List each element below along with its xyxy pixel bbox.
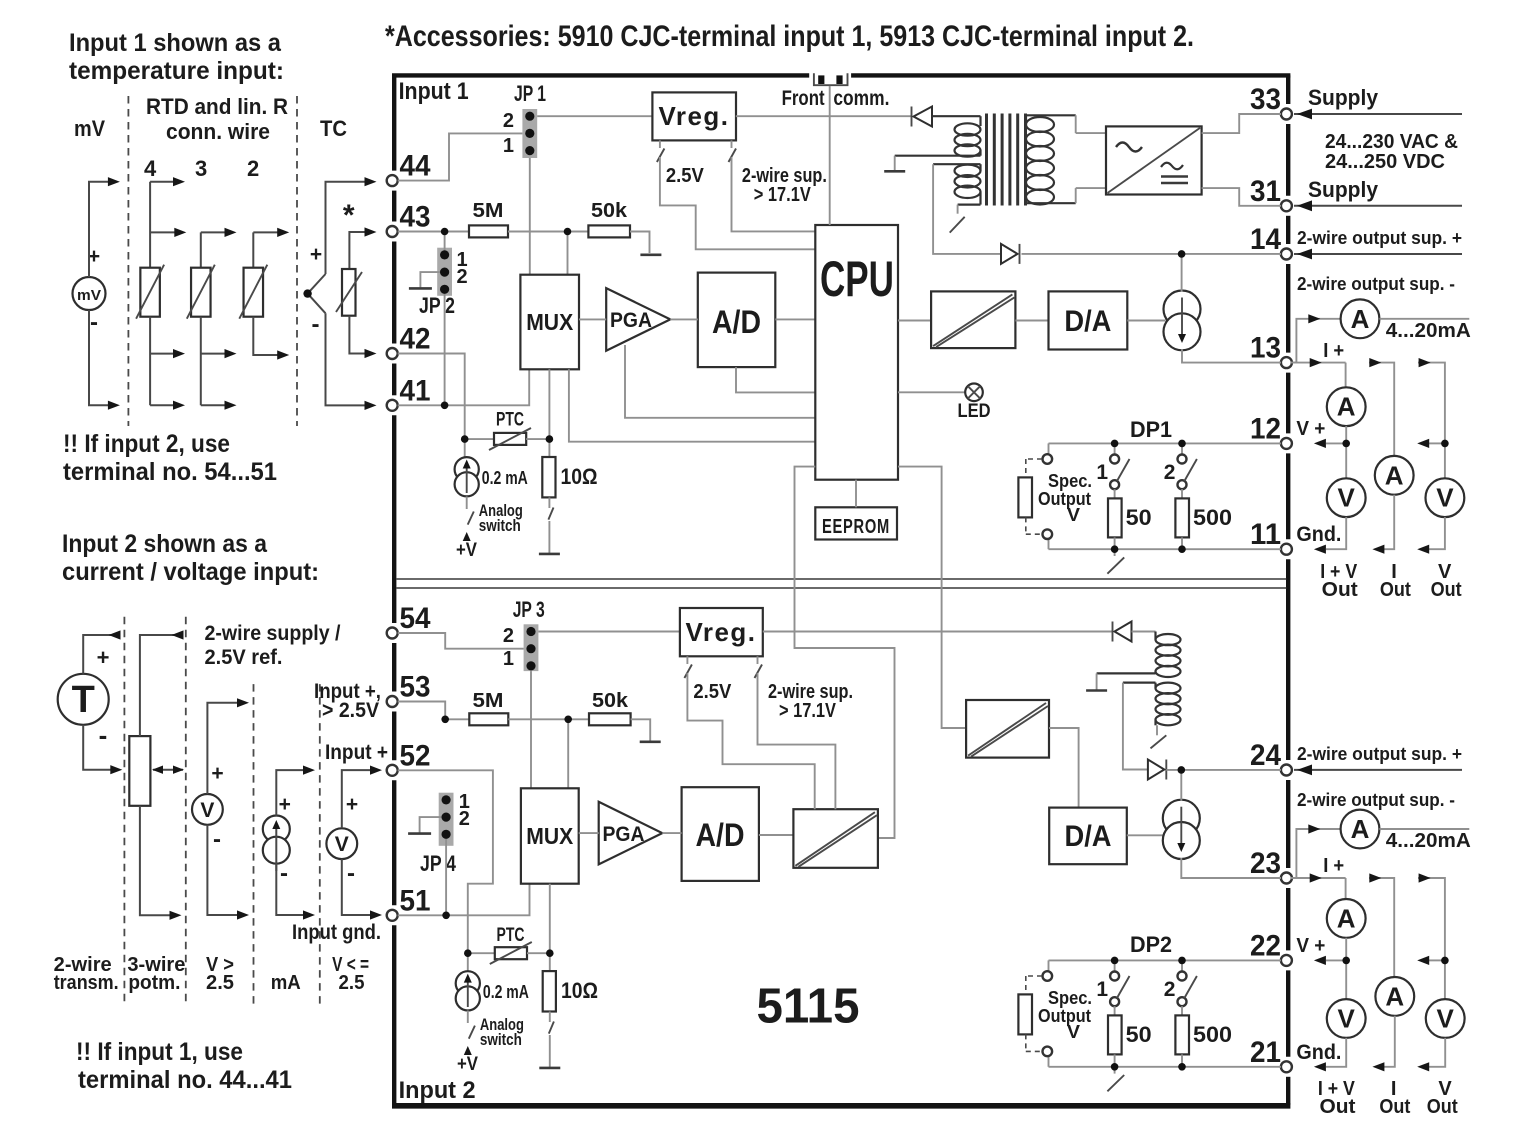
svg-text:PTC: PTC [496, 410, 524, 431]
svg-text:V: V [1437, 1004, 1455, 1034]
svg-text:5M: 5M [473, 690, 504, 712]
svg-text:JP 2: JP 2 [419, 293, 455, 318]
wire A/D to CPU [775, 318, 815, 320]
svg-text:33: 33 [1250, 83, 1281, 116]
spec output connector input 2 [1048, 960, 1050, 971]
main device enclosure border bottom [392, 1103, 1290, 1109]
svg-text:Supply: Supply [1308, 85, 1379, 110]
svg-text:DP1: DP1 [1130, 417, 1172, 442]
wire diode D4 to terminal 24 [1166, 769, 1281, 771]
transmitter T symbol [58, 674, 109, 725]
svg-text:52: 52 [400, 739, 431, 772]
svg-text:LED: LED [958, 401, 991, 422]
svg-text:5115: 5115 [757, 980, 860, 1034]
ground at JP2 [409, 287, 432, 290]
svg-text:mV: mV [77, 287, 101, 304]
branch I out input 2 [1369, 878, 1394, 977]
svg-text:+: + [279, 793, 291, 816]
svg-text:!! If input 2, use: !! If input 2, use [63, 430, 230, 458]
power transformer input 1 [932, 115, 981, 117]
svg-text:Gnd.: Gnd. [1296, 1041, 1341, 1064]
wire current source to terminal 13 [1182, 349, 1281, 362]
svg-text:2-wire output sup. -: 2-wire output sup. - [1297, 274, 1455, 294]
terminal 23 [1281, 873, 1292, 884]
wire DP2 top rail to terminal 22 [1049, 959, 1282, 961]
boundary dashed line left 1 [127, 96, 129, 426]
svg-text:> 17.1V: > 17.1V [779, 700, 837, 722]
wire JP1 bottom to MUX [529, 158, 531, 275]
rectifier AC/DC [1075, 115, 1077, 133]
svg-text:Out: Out [1379, 1096, 1410, 1118]
wire JP1 pin2 to Vreg [537, 115, 652, 117]
wire current source to terminal 23 [1181, 858, 1281, 878]
svg-text:*: * [343, 199, 355, 232]
svg-text:2.5V: 2.5V [693, 681, 732, 703]
converter D/A input 2 [1049, 808, 1127, 865]
2-wire sup line with switch to isolation input 2 [757, 656, 759, 664]
ground 10 ohm input 2 [539, 1067, 560, 1070]
wire isolation to D/A [1015, 320, 1048, 322]
svg-text:3: 3 [195, 156, 207, 181]
current source mA [263, 816, 290, 843]
svg-text:Gnd.: Gnd. [1296, 523, 1341, 546]
2.5V line with switch to isolation input 2 [686, 656, 688, 664]
voltage source V>2.5 [192, 794, 223, 825]
svg-text:*Accessories: 5910 CJC-termina: *Accessories: 5910 CJC-terminal input 1,… [385, 20, 1194, 53]
LED indicator [898, 391, 965, 393]
amplifier PGA input 2 [599, 802, 663, 865]
wire terminal 52 around to PTC node [398, 770, 493, 953]
svg-text:A: A [1385, 460, 1404, 490]
svg-text:2-wire output sup. -: 2-wire output sup. - [1297, 790, 1455, 810]
section separator lines [396, 578, 1286, 580]
mV source [73, 277, 106, 310]
wire MUX to PGA input 2 [579, 832, 599, 834]
svg-text:V: V [1067, 505, 1080, 525]
svg-text:-: - [90, 309, 98, 336]
svg-text:A: A [1351, 304, 1370, 334]
resistor RTD 2-wire [244, 268, 263, 317]
svg-text:42: 42 [400, 323, 431, 356]
svg-text:50: 50 [1126, 505, 1152, 530]
resistor 10 ohm input 2 [549, 953, 551, 971]
svg-text:Supply: Supply [1308, 177, 1379, 202]
svg-text:temperature input:: temperature input: [69, 57, 284, 85]
svg-text:Out: Out [1322, 579, 1358, 601]
svg-text:2-wire output sup. +: 2-wire output sup. + [1297, 228, 1462, 248]
svg-text:A/D: A/D [712, 304, 761, 340]
wire front comm to CPU [829, 86, 831, 225]
terminal 13 [1281, 357, 1292, 368]
svg-text:41: 41 [400, 374, 431, 407]
multiplexer MUX input 2 [521, 788, 579, 883]
svg-text:EEPROM: EEPROM [822, 516, 890, 538]
svg-text:2: 2 [459, 808, 470, 830]
svg-text:-: - [213, 826, 221, 853]
arrow to terminal 12 [1326, 442, 1346, 444]
wire terminal 51 to MUX bottom [398, 884, 530, 916]
ground at JP4 [408, 832, 431, 835]
voltmeter V branch input 2 [1426, 999, 1465, 1038]
inductor ground tap input 2 [1097, 672, 1156, 674]
converter D/A input 1 [1049, 291, 1128, 349]
svg-text:51: 51 [400, 884, 431, 917]
wire A/D bottom to CPU [736, 367, 815, 392]
wire MUX bottom to PTC node [548, 369, 550, 439]
svg-text:Input 2 shown as a: Input 2 shown as a [62, 530, 268, 558]
resistor 50 input 2 [1114, 1006, 1116, 1015]
amplifier PGA input 1 [606, 288, 670, 351]
svg-text:1: 1 [1096, 978, 1108, 1001]
svg-text:54: 54 [400, 602, 431, 635]
svg-text:conn. wire: conn. wire [166, 119, 270, 144]
diode D3 [1112, 622, 1114, 642]
svg-text:A/D: A/D [696, 817, 745, 853]
wire CPU left bus to input 2 isolation [795, 467, 895, 838]
inductor lower winding input 2 [1123, 681, 1156, 683]
switch DP1-2 [1181, 443, 1183, 454]
PTC sensor line [465, 438, 494, 440]
wire JP3 bottom to MUX input 2 [530, 671, 532, 788]
svg-text:2: 2 [457, 266, 468, 288]
wire DP1 top rail to terminal 12 [1049, 442, 1282, 444]
wire DP2 bottom rail to terminal 21 [1049, 1066, 1282, 1068]
output current source input 1 [1164, 291, 1201, 328]
terminal 14 [1281, 249, 1292, 260]
wire A/D to isolation input 2 [759, 834, 794, 836]
svg-text:+: + [211, 762, 223, 785]
wire MUX to PGA [579, 318, 606, 320]
svg-text:switch: switch [480, 1030, 522, 1049]
svg-text:current / voltage input:: current / voltage input: [62, 558, 319, 586]
wire node 53 to MUX top input 2 [567, 719, 569, 788]
svg-text:DP2: DP2 [1130, 932, 1172, 957]
svg-text:D/A: D/A [1065, 820, 1112, 853]
svg-text:31: 31 [1250, 175, 1281, 208]
svg-text:D/A: D/A [1064, 305, 1111, 338]
resistor 5M input 2 [469, 713, 508, 725]
RTD 2-wire column [252, 232, 254, 267]
svg-text:Input +: Input + [325, 741, 388, 764]
inductor upper winding input 2 [1154, 632, 1156, 640]
svg-text:Out: Out [1380, 579, 1411, 601]
wire D/A to output current source [1127, 320, 1165, 322]
svg-text:V: V [335, 833, 349, 856]
secondary winding [1026, 114, 1076, 116]
2-wire sup line with switch to CPU [731, 140, 733, 148]
svg-text:4: 4 [144, 156, 157, 181]
wire node 43 to MUX top [567, 232, 569, 275]
svg-text:A: A [1351, 814, 1370, 844]
wire PGA to A/D input 2 [662, 832, 681, 834]
svg-text:2.5V ref.: 2.5V ref. [205, 646, 283, 669]
svg-text:24...250 VDC: 24...250 VDC [1325, 151, 1445, 173]
switch DP2-2 [1181, 960, 1183, 971]
svg-text:53: 53 [400, 671, 431, 704]
terminal 52 [387, 765, 398, 776]
resistor 50 [1114, 489, 1116, 498]
svg-text:10Ω: 10Ω [561, 978, 598, 1003]
wire rectifier to terminal 33 [1202, 114, 1281, 133]
terminal 44 [387, 175, 398, 186]
svg-text:V: V [1067, 1022, 1080, 1042]
svg-text:500: 500 [1193, 1022, 1232, 1047]
RTD 3-wire column [200, 232, 202, 267]
svg-text:-: - [347, 860, 355, 887]
wire 50k to ground [630, 232, 650, 254]
resistor 10 ohm input 1 [548, 439, 550, 457]
svg-text:2.5: 2.5 [339, 972, 365, 994]
diode D1 [736, 115, 912, 117]
svg-text:JP 1: JP 1 [514, 81, 546, 106]
svg-text:14: 14 [1250, 223, 1281, 256]
svg-text:12: 12 [1250, 412, 1281, 445]
jumper JP3 [524, 624, 539, 671]
wire JP3 pin2 to Vreg input 2 [538, 631, 680, 633]
svg-text:terminal no. 54...51: terminal no. 54...51 [63, 458, 277, 486]
svg-text:Input 2: Input 2 [399, 1077, 476, 1104]
svg-text:PGA: PGA [603, 823, 645, 846]
voltmeter I+V branch input 2 [1327, 999, 1366, 1038]
svg-text:Vreg.: Vreg. [686, 617, 757, 647]
svg-text:Output: Output [1038, 489, 1091, 509]
terminal 31 [1281, 200, 1292, 211]
svg-text:22: 22 [1250, 929, 1281, 962]
terminal 41 [387, 400, 398, 411]
terminal 51 [387, 910, 398, 921]
terminal 33 [1281, 109, 1292, 120]
converter A/D input 2 [682, 787, 759, 881]
resistor 5M [469, 225, 508, 237]
memory EEPROM [815, 507, 897, 539]
multiplexer MUX input 1 [520, 275, 579, 370]
svg-text:+: + [97, 645, 110, 670]
svg-text:10Ω: 10Ω [561, 464, 598, 489]
resistor PTC input 2 [495, 947, 527, 959]
wire MUX bottom to PTC node input 2 [549, 884, 551, 954]
ground after 50k input 2 [640, 740, 661, 743]
wire junction dots [303, 289, 311, 297]
jumper JP1 [522, 109, 537, 158]
2.5V line with switch to CPU [659, 140, 661, 148]
svg-text:+V: +V [457, 1054, 478, 1075]
svg-text:24...230 VAC &: 24...230 VAC & [1325, 131, 1458, 153]
boundary dashed line left 2 [296, 96, 298, 426]
svg-text:PTC: PTC [497, 925, 525, 946]
svg-text:2: 2 [503, 625, 514, 647]
terminal 21 [1281, 1061, 1292, 1072]
svg-text:+V: +V [456, 540, 477, 561]
wire DP1 bottom rail to terminal 11 [1049, 548, 1282, 550]
svg-text:A: A [1337, 903, 1356, 933]
svg-text:V: V [1338, 1004, 1356, 1034]
svg-text:1: 1 [503, 648, 514, 670]
isolation barrier input 2 signal [793, 809, 878, 868]
svg-text:PGA: PGA [610, 309, 652, 332]
resistor 500 input 2 [1181, 1006, 1183, 1015]
svg-text:I +: I + [1323, 855, 1344, 877]
svg-text:V: V [200, 799, 214, 822]
svg-text:!! If input 1, use: !! If input 1, use [76, 1038, 243, 1066]
svg-text:5M: 5M [473, 200, 504, 222]
svg-text:MUX: MUX [526, 309, 574, 335]
terminal 24 [1281, 765, 1292, 776]
front communication connector [814, 73, 848, 85]
resistor spec output [1018, 477, 1032, 517]
svg-text:> 2.5V: > 2.5V [322, 699, 379, 722]
svg-text:2: 2 [1164, 978, 1176, 1001]
wire terminal 53 to 5M input 2 [398, 702, 446, 720]
wire mV bottom [89, 310, 116, 405]
wire terminal 54 to JP3 pin1 [398, 633, 524, 649]
svg-text:Out: Out [1320, 1096, 1356, 1118]
svg-text:MUX: MUX [526, 823, 574, 849]
wire D/A to output current source input 2 [1127, 834, 1165, 836]
svg-text:24: 24 [1250, 739, 1281, 772]
wire mV top to terminal 44 level [89, 182, 116, 277]
ammeter I+V branch input 1 [1327, 387, 1366, 426]
voltmeter V branch input 1 [1426, 478, 1465, 517]
resistor 500 [1181, 489, 1183, 498]
svg-text:2.5: 2.5 [206, 972, 234, 994]
PTC line input 2 [468, 952, 495, 954]
ammeter I+V branch input 2 [1327, 899, 1366, 938]
branch V out input 1 [1418, 363, 1445, 479]
branch I+V out input 1 [1291, 362, 1346, 364]
svg-text:mA: mA [271, 972, 301, 994]
terminal 11 [1281, 544, 1292, 555]
svg-text:Input 1 shown as a: Input 1 shown as a [69, 29, 282, 57]
svg-text:Spec.: Spec. [1048, 988, 1092, 1008]
RTD 4-wire column [149, 182, 151, 268]
svg-text:terminal no. 44...41: terminal no. 44...41 [78, 1066, 292, 1094]
primary lower winding [933, 163, 980, 165]
wire lower winding to diode D2 [933, 164, 1001, 254]
svg-text:44: 44 [400, 150, 431, 183]
svg-text:CPU: CPU [820, 251, 894, 307]
wire JP2 pin2 to ground [420, 272, 444, 287]
inductor feed input 2 [763, 631, 1113, 633]
svg-text:transm.: transm. [54, 972, 119, 994]
main device enclosure border left [392, 75, 396, 170]
svg-text:2.5V: 2.5V [666, 165, 705, 187]
svg-text:23: 23 [1250, 847, 1281, 880]
isolation barrier input 2 power [966, 700, 1049, 758]
svg-text:Input gnd.: Input gnd. [292, 921, 381, 944]
branch V out input 2 [1418, 878, 1445, 999]
diode D4 [1148, 760, 1164, 780]
svg-text:1: 1 [503, 135, 514, 157]
svg-text:Front: Front [782, 87, 825, 110]
voltage source V<=2.5 [326, 828, 357, 859]
inductor tap switch input 2 [1156, 725, 1158, 735]
wire transmitter bottom [83, 725, 112, 770]
svg-text:1: 1 [1096, 461, 1108, 484]
svg-text:500: 500 [1193, 505, 1232, 530]
svg-text:V +: V + [1296, 418, 1325, 440]
svg-text:2-wire supply /: 2-wire supply / [205, 622, 341, 645]
wire 50k to ground input 2 [631, 719, 651, 741]
ground after 50k [640, 254, 661, 257]
svg-text:-: - [312, 311, 320, 338]
svg-text:-: - [280, 860, 288, 887]
svg-text:RTD and lin. R: RTD and lin. R [146, 94, 288, 119]
svg-text:50k: 50k [592, 690, 629, 712]
svg-text:mV: mV [74, 116, 105, 141]
wire terminal 42 to PTC node [398, 354, 465, 440]
ground 10 ohm input 1 [539, 553, 560, 556]
svg-text:+: + [346, 793, 358, 816]
wire JP2 bottom to node 41 [444, 294, 446, 406]
svg-text:switch: switch [479, 516, 521, 535]
wire JP4 bottom to node 51 [445, 839, 447, 916]
main device enclosure border right [1286, 75, 1290, 104]
wire CPU to EEPROM [855, 480, 857, 508]
resistor RTD 3-wire [191, 268, 211, 317]
current source 0.2 mA input 2 [467, 953, 469, 971]
converter A/D input 1 [698, 273, 776, 368]
svg-text:+: + [310, 243, 322, 266]
svg-text:13: 13 [1250, 332, 1281, 365]
DP2 common switch arm [1114, 1067, 1116, 1074]
svg-text:50: 50 [1126, 1022, 1152, 1047]
svg-text:JP 3: JP 3 [513, 597, 545, 622]
svg-text:A: A [1337, 392, 1356, 422]
ammeter I branch input 2 [1375, 977, 1414, 1016]
svg-text:21: 21 [1250, 1036, 1281, 1069]
svg-text:0.2 mA: 0.2 mA [483, 982, 529, 1002]
svg-text:comm.: comm. [833, 87, 889, 110]
analog switch input 1 [466, 496, 468, 509]
svg-text:> 17.1V: > 17.1V [754, 184, 812, 206]
winding tap switch [957, 205, 959, 214]
analog switch input 2 [467, 1011, 469, 1024]
svg-text:2: 2 [247, 156, 259, 181]
transformer core [985, 114, 988, 206]
wire terminal 14 line [1022, 253, 1282, 255]
wire terminal 44 to JP1 pin1 [398, 133, 523, 180]
boundary dashed lines input 2 [123, 617, 125, 1006]
main device enclosure border top [392, 73, 809, 77]
wire rectifier to terminal 31 [1202, 188, 1281, 206]
ammeter I branch input 1 [1375, 456, 1414, 495]
svg-text:V: V [1338, 483, 1356, 513]
regulator Vreg input 2 [680, 608, 763, 656]
terminal 22 [1281, 955, 1292, 966]
potentiometer wiper double arrow [153, 769, 183, 771]
wire PGA bottom to CPU [625, 345, 815, 418]
branch I out input 1 [1369, 363, 1394, 456]
isolation barrier input 1 output [898, 320, 931, 322]
wire MUX bottom to CPU [569, 369, 815, 441]
resistor 50k input 2 [589, 713, 631, 725]
terminal 42 [387, 348, 398, 359]
output current source input 2 [1163, 800, 1200, 837]
svg-text:Out: Out [1427, 1096, 1458, 1118]
DP1 common switch arm [1114, 549, 1116, 556]
branch I+V out input 2 [1291, 877, 1346, 879]
wire transmitter top (2-wire supply) [83, 635, 120, 674]
wire lower winding to diode D4 [1123, 683, 1148, 770]
svg-text:Out: Out [1431, 579, 1462, 601]
jumper JP4 [439, 793, 454, 846]
svg-text:V: V [1436, 483, 1454, 513]
svg-text:-: - [99, 720, 108, 750]
terminal 12 [1281, 438, 1292, 449]
resistor spec output input 2 [1018, 994, 1032, 1034]
svg-text:potm.: potm. [128, 972, 180, 994]
svg-text:Input 1: Input 1 [399, 78, 469, 105]
